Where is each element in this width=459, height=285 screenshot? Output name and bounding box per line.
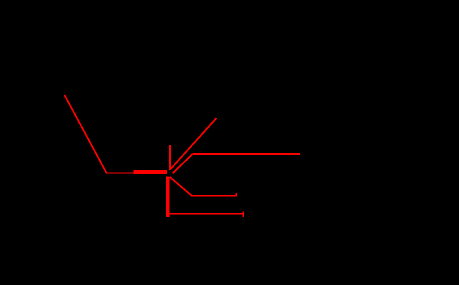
tick at end of lower level: [242, 212, 244, 217]
wire: left horizontal thin line: [106, 172, 166, 173]
node: middle split level line: [191, 195, 237, 197]
wire: short diagonal to middle level: [170, 177, 192, 196]
wire: vertical stub above junction: [169, 145, 171, 170]
wire: long diagonal ray to upper right: [171, 118, 217, 169]
node: lower split level line: [166, 213, 242, 215]
wire: vertical drop below junction: [166, 177, 169, 217]
node: upper split level line: [192, 153, 300, 155]
wire: short diagonal to upper level: [173, 154, 193, 173]
tick at end of middle level: [235, 193, 237, 197]
node: thick level bar at left of junction: [133, 170, 167, 174]
wire: upper-left diagonal lead: [65, 95, 107, 173]
